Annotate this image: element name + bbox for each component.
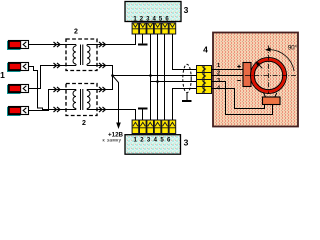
wire +12V rail to sensor supply (row 2)	[113, 75, 197, 77]
wire sensor pin3 to pickup	[212, 82, 273, 115]
top connector pin numbers 1-6	[133, 16, 169, 22]
svg-text:3: 3	[184, 138, 189, 148]
arrow +12V feed	[116, 123, 121, 130]
svg-text:90°: 90°	[288, 45, 298, 51]
connector chevron coil1 top-right	[99, 42, 106, 47]
wire bottom pin6 to sensor row 4	[173, 89, 197, 121]
connector chevron coil2 bottom-left	[54, 107, 61, 112]
wire plug2 to coil2 bottom-left	[29, 67, 67, 110]
sensor pin numbers 1-4	[217, 63, 221, 91]
svg-text:2: 2	[74, 29, 78, 36]
controller connector block 3 (top)	[125, 2, 181, 22]
wire top pin6 to sensor row 1	[173, 34, 197, 70]
wire sensor pin1 to emitter +	[212, 69, 244, 71]
rotation arrow	[258, 64, 262, 68]
spark plug 2	[8, 63, 29, 72]
rotor disc inner edge	[254, 61, 282, 89]
wire top pin3 to bottom pin3	[150, 34, 152, 120]
spark plug 4	[8, 107, 29, 116]
coil2 windings and core	[66, 89, 97, 110]
connector chevron coil2 top-right	[99, 87, 106, 92]
connector chevron coil2 top-left	[54, 87, 61, 92]
wire plug3 to coil1 bottom-left	[29, 66, 67, 89]
wire coil2 top-right to +12V node	[97, 76, 113, 90]
wire coil1 top-right to top connector pin1	[97, 34, 136, 45]
wire bottom connector pin2 to ground	[142, 109, 144, 120]
wire +12V branch to battery feed	[113, 76, 119, 124]
spark plug 1	[8, 41, 29, 50]
svg-text:3: 3	[184, 5, 189, 15]
rotor disc (outer ring)	[251, 58, 287, 94]
ground (bottom)	[138, 108, 148, 110]
svg-text:1: 1	[0, 70, 5, 80]
wire coil2 bottom-right to bottom connector pin1	[97, 110, 136, 121]
connector chevron coil1 bottom-left	[54, 63, 61, 68]
connector chevron plug1 wire	[54, 42, 61, 47]
connector chevron coil1 bottom-right	[99, 63, 106, 68]
node pin3 tap on +12V rail	[149, 74, 152, 77]
sensor connector terminals (yellow pairs)	[197, 66, 212, 94]
coil1 windings and core	[66, 45, 97, 66]
wire sensor signal row 3	[151, 81, 197, 83]
label +	[237, 65, 240, 68]
wire sensor pin2 to emitter -	[212, 75, 244, 77]
svg-text:1: 1	[217, 63, 220, 69]
svg-text:4: 4	[203, 45, 208, 55]
ignition coil 2 (bottom module box)	[66, 84, 97, 116]
axis vertical (dash-dot)	[268, 46, 270, 94]
wire shield to ground	[186, 93, 188, 100]
wire plug4 to coil2 top-left	[29, 90, 67, 111]
top connector terminals (yellow)	[132, 23, 176, 34]
sensor assembly box 4	[213, 33, 298, 127]
wire plug1 to coil1 top-left	[29, 44, 67, 46]
wire top pin4 to bottom pin4	[157, 34, 159, 120]
wire sensor pin4 to pickup	[212, 89, 265, 109]
svg-text:к замку: к замку	[103, 139, 122, 144]
wire coil1 bottom-right to +12V node	[97, 66, 113, 76]
emitter (left sensor element)	[243, 63, 251, 87]
pickup neck right	[275, 93, 277, 97]
ground (top)	[138, 44, 148, 46]
pickup neck left	[264, 93, 266, 97]
arc 90 degrees	[269, 50, 294, 72]
pickup (Hall sensor)	[263, 97, 281, 105]
controller connector block 3 (bottom)	[125, 135, 181, 155]
node pin4 tap on sensor signal row	[156, 80, 159, 83]
connector chevron coil2 bottom-right	[99, 107, 106, 112]
shielding of sensor harness	[183, 64, 191, 92]
axis horizontal (dash-dot)	[245, 75, 298, 77]
rotor disc red band	[253, 60, 285, 92]
svg-text:+12В: +12В	[108, 132, 123, 139]
wire top connector pin2 to ground	[142, 34, 144, 43]
svg-text:3: 3	[217, 78, 220, 84]
ground (shield)	[182, 100, 192, 102]
ignition coil 2 (top module box)	[66, 39, 97, 71]
spark plug 3	[8, 85, 29, 94]
bottom connector terminals (yellow)	[132, 120, 176, 134]
arrowhead arc	[265, 48, 271, 52]
bottom connector pin numbers 1-6	[134, 138, 172, 144]
node +12V junction	[111, 74, 114, 77]
wire top pin5 to bottom pin5	[164, 34, 166, 120]
svg-text:2: 2	[82, 120, 86, 127]
label -	[237, 80, 240, 82]
